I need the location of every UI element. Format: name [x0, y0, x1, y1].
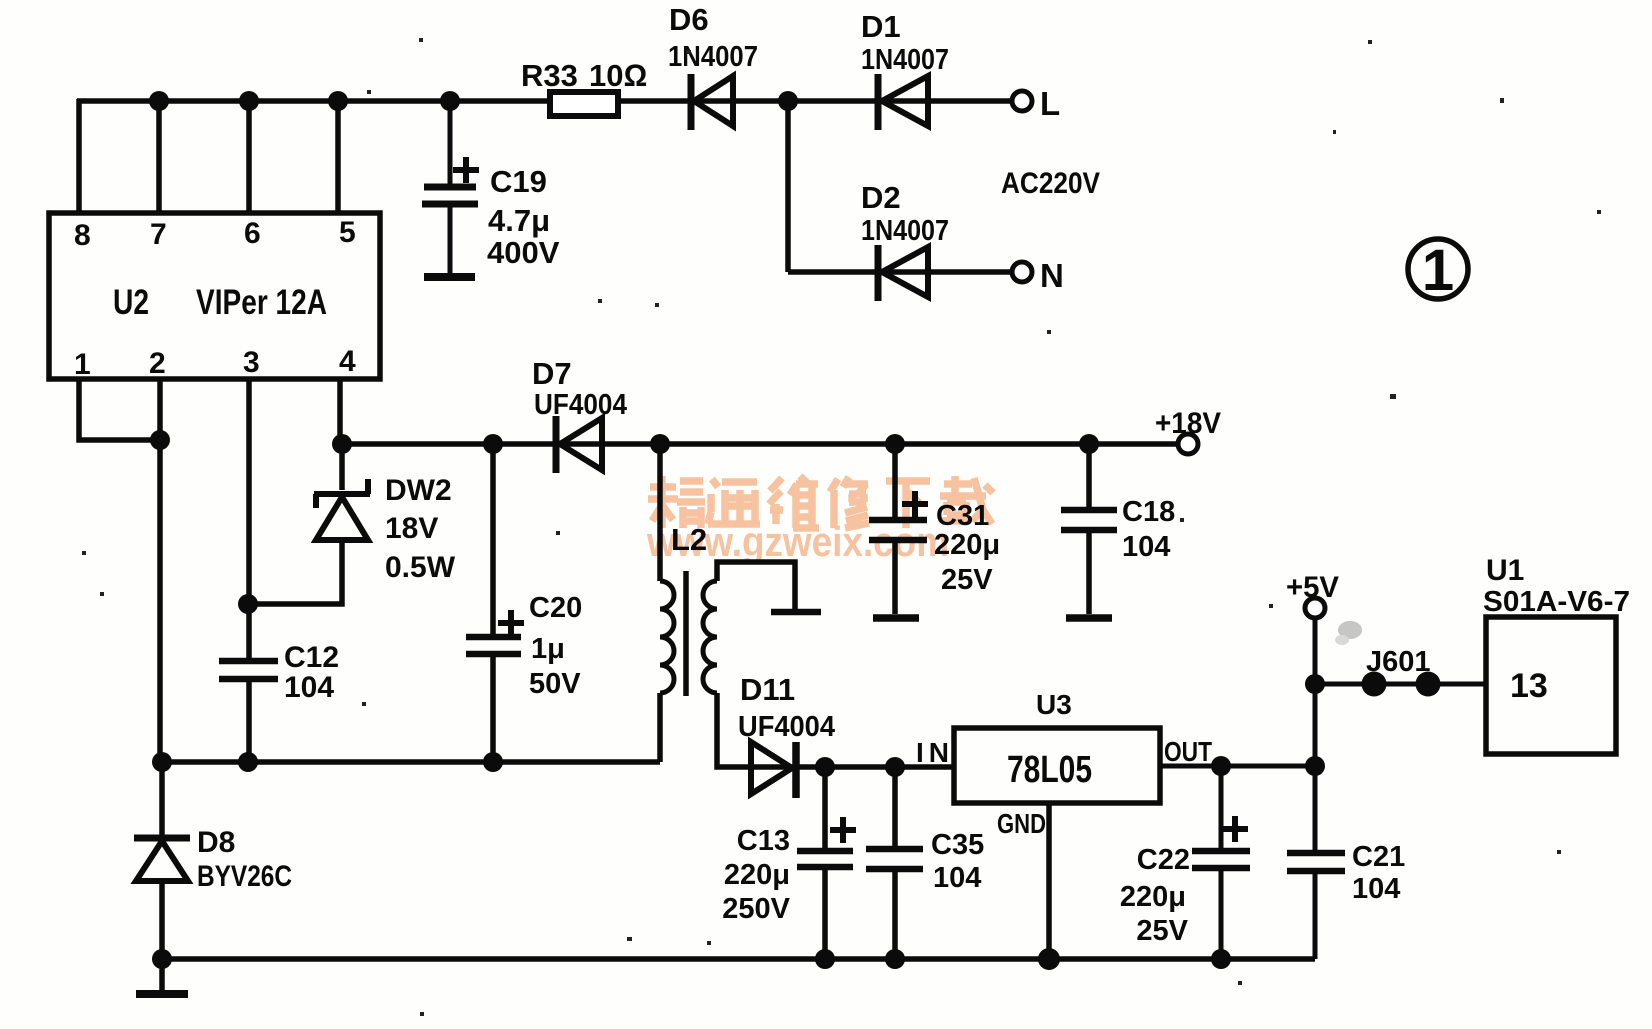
wire pin3 vertical [246, 379, 252, 658]
node dot pin4 rail [332, 434, 352, 454]
ground [136, 990, 188, 998]
svg-text:25V: 25V [941, 564, 993, 596]
svg-text:OUT: OUT [1164, 736, 1212, 767]
wire +5V vertical [1313, 618, 1318, 766]
IC U1 box [1486, 617, 1616, 754]
wire U3 GND stub [1046, 803, 1052, 959]
svg-text:1N4007: 1N4007 [861, 215, 949, 247]
svg-text:220μ: 220μ [724, 859, 790, 891]
svg-text:13: 13 [1510, 667, 1548, 705]
node dot C35 top [885, 757, 905, 777]
wire C20 top [490, 444, 496, 634]
diode D2 1N4007 [878, 245, 928, 301]
capacitor C12 [219, 661, 278, 679]
wire pin5 [335, 101, 341, 213]
smudge near J601 [1335, 621, 1362, 645]
svg-text:D11: D11 [740, 672, 795, 707]
wire J601 to U1 [1315, 682, 1486, 687]
wire L2 primary bottom [657, 693, 663, 762]
svg-text:DW2: DW2 [385, 474, 452, 507]
char xiu [830, 477, 869, 528]
svg-text:5: 5 [339, 216, 356, 249]
svg-text:7: 7 [150, 218, 167, 251]
wire DW2 top [339, 444, 345, 490]
svg-text:+5V: +5V [1286, 571, 1339, 604]
svg-text:GND: GND [997, 808, 1046, 839]
page marker circled 1 [1408, 239, 1468, 299]
resistor R33 [550, 92, 618, 116]
node dot bottom C22 [1211, 949, 1231, 969]
node dot D11 out [815, 757, 835, 777]
wire pin2 long vertical [157, 379, 163, 762]
secondary winding [703, 581, 717, 693]
wire pin1 elbow [79, 379, 160, 440]
terminal +18V [1178, 434, 1198, 454]
node dot DW2-C12 [238, 594, 258, 614]
diode D1 1N4007 [878, 74, 928, 130]
node dot bottom GND [1038, 948, 1060, 970]
primary winding [660, 581, 674, 693]
svg-text:AC220V: AC220V [1001, 167, 1100, 200]
svg-text:1N4007: 1N4007 [668, 41, 758, 73]
svg-text:6: 6 [244, 217, 261, 250]
svg-text:BYV26C: BYV26C [197, 860, 292, 893]
svg-text:50V: 50V [529, 668, 581, 700]
node A dot [778, 91, 798, 111]
node dot C18 top [1079, 434, 1099, 454]
terminal L [1012, 91, 1032, 111]
svg-text:UF4004: UF4004 [738, 711, 835, 743]
svg-text:C21: C21 [1352, 841, 1405, 873]
svg-text:3: 3 [243, 346, 260, 379]
svg-text:L2: L2 [671, 522, 707, 557]
terminal N [1012, 262, 1032, 282]
svg-text:L: L [1040, 85, 1060, 122]
wire pin4 vertical [337, 379, 343, 444]
node dot rail-C12 [238, 752, 258, 772]
node dot L2 top [650, 434, 670, 454]
svg-text:C19: C19 [490, 164, 547, 199]
wire C18 branch [1086, 444, 1092, 614]
capacitor C13 [797, 817, 856, 867]
char xia [886, 481, 930, 528]
wire lower middle rail [162, 759, 660, 765]
node dot C31 top [885, 434, 905, 454]
svg-text:C18: C18 [1122, 496, 1175, 528]
svg-text:1μ: 1μ [531, 633, 565, 665]
svg-text:S01A-V6-7: S01A-V6-7 [1483, 586, 1630, 618]
svg-text:18V: 18V [385, 512, 438, 545]
middle section wires [79, 379, 1315, 992]
IC U2 VIPer12A box [49, 213, 380, 379]
svg-text:R33: R33 [521, 58, 578, 93]
wire L2 secondary bottom [717, 693, 954, 767]
svg-text:J601: J601 [1366, 646, 1431, 678]
wire to D2 [788, 269, 1012, 275]
node dot bottom C35 [885, 949, 905, 969]
capacitor C35 [866, 849, 923, 869]
zener DW2 [314, 479, 370, 540]
watermark 精通维修下载 [648, 476, 993, 528]
node dot pin6 [239, 91, 259, 111]
wire D8 top [159, 762, 165, 838]
diode D6 1N4007 [691, 74, 733, 130]
wire DW2 bottom elbow [248, 541, 342, 604]
transformer L2 [660, 571, 821, 696]
svg-text:104: 104 [1122, 531, 1170, 563]
char zai [940, 476, 993, 524]
char wei [769, 476, 819, 528]
node dot pin1-pin2 [150, 430, 170, 450]
node dot rail-C20 [483, 752, 503, 772]
svg-text:0.5W: 0.5W [385, 551, 456, 584]
svg-text:C20: C20 [529, 592, 582, 624]
node dot C20 top [483, 434, 503, 454]
connector J601 dot 1 [1362, 672, 1387, 697]
diode D8 BYV26C [134, 838, 190, 881]
node dot +5V J601 [1305, 674, 1325, 694]
node dot C21 top [1305, 756, 1325, 776]
svg-text:25V: 25V [1136, 915, 1188, 947]
wire D2 branch vertical [785, 101, 791, 272]
wire C35 vertical [892, 767, 898, 959]
svg-text:C31: C31 [936, 500, 989, 532]
capacitor C20 [466, 610, 524, 654]
capacitor C31 [869, 491, 928, 618]
svg-text:220μ: 220μ [1120, 881, 1186, 913]
svg-text:250V: 250V [722, 893, 790, 925]
svg-text:220μ: 220μ [934, 529, 1000, 561]
wire OUT to +5V node [1160, 764, 1315, 769]
svg-text:104: 104 [284, 671, 334, 704]
diode D7 UF4004 [556, 416, 602, 473]
capacitor C22 [1192, 766, 1250, 959]
svg-text:U2: U2 [113, 283, 149, 322]
wire C31 branch [892, 444, 898, 614]
wire C13 vertical [822, 767, 828, 959]
node dot pin5 [328, 91, 348, 111]
svg-text:1: 1 [74, 348, 91, 381]
svg-text:4: 4 [339, 345, 356, 378]
wire bottom rail [162, 956, 1315, 962]
core [683, 571, 689, 696]
terminal +5V [1305, 598, 1325, 618]
wire C20 bottom [490, 657, 496, 762]
wire L2 secondary top elbow [717, 562, 795, 610]
svg-text:1N4007: 1N4007 [861, 44, 949, 76]
svg-text:U1: U1 [1486, 554, 1524, 587]
svg-text:400V: 400V [487, 235, 560, 270]
wire L2 primary top [657, 444, 663, 581]
svg-text:U3: U3 [1036, 689, 1072, 720]
svg-text:D7: D7 [532, 356, 572, 391]
wire pin6 [246, 101, 252, 213]
svg-text:N: N [1040, 257, 1064, 294]
svg-text:IN: IN [916, 737, 949, 768]
node dot rail-pin2 [152, 752, 172, 772]
connector J601 dot 2 [1416, 672, 1441, 697]
svg-text:104: 104 [1352, 873, 1400, 905]
capacitor C19 [422, 101, 479, 277]
char jing [648, 476, 705, 528]
IC U3 78L05 box [954, 728, 1160, 803]
svg-text:D2: D2 [861, 180, 901, 215]
secondary return bar [771, 609, 821, 616]
wire top rail [77, 98, 1012, 104]
svg-text:8: 8 [74, 219, 91, 252]
svg-text:C22: C22 [1137, 844, 1190, 876]
wire pin8 [76, 99, 82, 213]
node dot C19 [440, 91, 460, 111]
svg-text:VIPer 12A: VIPer 12A [196, 283, 327, 322]
svg-text:4.7μ: 4.7μ [488, 203, 550, 238]
svg-text:UF4004: UF4004 [534, 389, 627, 421]
wire C12 bottom [246, 682, 252, 762]
diode D11 UF4004 [751, 742, 796, 798]
node dot bottom rail left [152, 949, 172, 969]
capacitor C18 [1061, 510, 1117, 618]
node dot bottom C13 [815, 949, 835, 969]
node dot pin7 [149, 91, 169, 111]
svg-text:2: 2 [149, 347, 166, 380]
svg-text:104: 104 [933, 862, 981, 894]
svg-text:C12: C12 [284, 641, 339, 674]
char tong [708, 479, 760, 524]
svg-text:C35: C35 [931, 829, 984, 861]
svg-text:1: 1 [1422, 238, 1454, 303]
capacitor C21 [1287, 766, 1345, 959]
wire D8 bottom [159, 882, 165, 992]
wire +18V rail left [340, 441, 1178, 447]
svg-text:+18V: +18V [1155, 407, 1221, 440]
svg-text:D1: D1 [861, 9, 901, 44]
node dot OUT-C22 [1211, 756, 1231, 776]
wire pin7 [156, 101, 162, 213]
svg-text:10Ω: 10Ω [589, 58, 647, 93]
svg-text:D6: D6 [669, 2, 709, 37]
svg-text:78L05: 78L05 [1007, 749, 1092, 791]
svg-text:C13: C13 [737, 825, 790, 857]
svg-text:D8: D8 [197, 826, 235, 859]
